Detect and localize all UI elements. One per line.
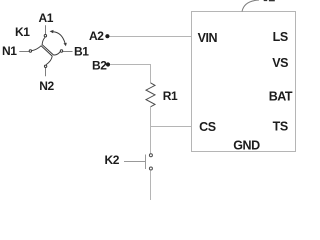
wire to CS pin — [151, 126, 192, 128]
svg-text:TS: TS — [273, 119, 288, 133]
switch K1 contact circle B1 — [60, 50, 62, 52]
svg-text:K2: K2 — [105, 153, 120, 167]
wire A2 to VIN — [110, 36, 192, 38]
wire B2 down to R1 — [150, 64, 152, 83]
wire B2 horizontal — [110, 64, 151, 66]
switch K1 terminal stem B1 — [63, 51, 73, 53]
svg-text:BAT: BAT — [269, 89, 293, 103]
switch K2 contact circle upper — [149, 154, 152, 157]
switch K1 blade N1-N2 (arc, bar, arc) — [32, 46, 52, 65]
cut-off label remnant — [264, 0, 268, 1]
rotation arrow — [53, 32, 65, 44]
switch K1 blade A1-B1 (arc, bar, arc) — [42, 37, 60, 55]
switch K2 actuator bar — [145, 155, 147, 170]
svg-text:VS: VS — [272, 56, 288, 70]
svg-text:B1: B1 — [74, 45, 89, 59]
svg-text:A1: A1 — [39, 11, 54, 25]
switch K1 terminal stem N2 — [45, 68, 47, 77]
svg-text:K1: K1 — [15, 25, 30, 39]
junction dot A2 — [105, 34, 109, 38]
svg-text:N1: N1 — [2, 44, 17, 58]
svg-text:VIN: VIN — [198, 31, 218, 45]
svg-text:A2: A2 — [89, 29, 104, 43]
wire R1 to CS junction — [150, 107, 152, 154]
callout wire to cut-off label — [242, 0, 259, 12]
switch K1 terminal stem A1 — [45, 25, 47, 34]
resistor R1 — [146, 83, 155, 107]
svg-text:GND: GND — [233, 138, 260, 152]
junction dot B2 — [106, 62, 110, 66]
switch K2 contact circle lower — [149, 167, 152, 170]
switch K1 contact circle N1 — [29, 50, 31, 52]
svg-text:N2: N2 — [39, 79, 54, 93]
svg-text:B2: B2 — [92, 58, 107, 72]
switch K1 contact circle N2 — [44, 65, 46, 67]
wire below K2 to bottom edge — [150, 170, 152, 200]
switch K1 terminal stem N1 — [19, 51, 29, 53]
IC box U1 — [192, 12, 296, 152]
svg-text:LS: LS — [273, 30, 288, 44]
wire K2 lead — [124, 161, 146, 163]
svg-text:R1: R1 — [163, 89, 178, 103]
switch K1 contact circle A1 — [44, 35, 46, 37]
svg-text:CS: CS — [199, 120, 216, 134]
